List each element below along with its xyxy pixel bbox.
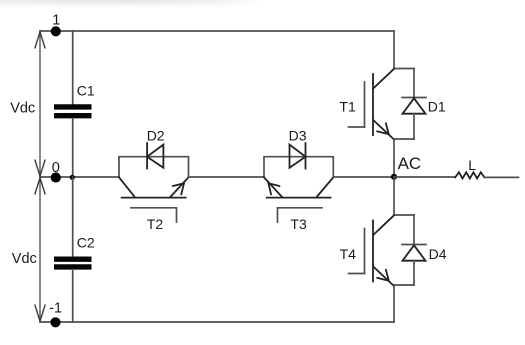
- label T3: [290, 216, 307, 232]
- node 1 junction dot: [51, 26, 61, 36]
- IGBT T4 emitter arrow: [377, 270, 389, 281]
- wire T4 emitter to bottom rail: [393, 285, 395, 322]
- wire T1 emitter to AC node: [393, 139, 395, 177]
- IGBT T1 emitter arrow: [377, 123, 389, 134]
- wire T1 collector junction to D1 branch: [394, 68, 414, 70]
- diode D2: [147, 143, 163, 168]
- node 0 label: [52, 160, 60, 176]
- wire top rail (node 1 to T1 collector): [40, 30, 394, 32]
- node -1 label: [49, 301, 62, 317]
- label T2: [147, 216, 164, 232]
- label T4: [340, 246, 357, 262]
- node 0 junction dot: [51, 172, 61, 182]
- svg-text:D3: D3: [289, 128, 307, 144]
- wire T3 to AC node: [333, 176, 394, 178]
- AC junction dot: [391, 174, 397, 180]
- wire inductor to output: [484, 176, 518, 178]
- svg-text:T2: T2: [147, 216, 164, 232]
- IGBT T3 body outline: [264, 157, 333, 198]
- svg-text:C2: C2: [77, 235, 95, 251]
- node -1 junction dot: [50, 317, 60, 327]
- svg-text:L: L: [468, 157, 476, 173]
- IGBT T1: [349, 69, 395, 140]
- inductor L: [455, 172, 484, 178]
- svg-text:D1: D1: [428, 99, 446, 115]
- svg-text:D2: D2: [147, 128, 165, 144]
- wire D1 branch upper: [413, 69, 415, 98]
- label D3: [289, 128, 307, 144]
- svg-text:T3: T3: [290, 216, 307, 232]
- label D4: [429, 246, 447, 262]
- label Vdc upper: [10, 100, 35, 116]
- svg-text:-1: -1: [49, 301, 62, 317]
- svg-text:T4: T4: [340, 246, 357, 262]
- IGBT T2 emitter arrow: [173, 183, 184, 194]
- junction dot cap branch at node 0 rail: [70, 175, 75, 180]
- wire C1 to node 0: [72, 119, 74, 178]
- IGBT T3 emitter arrow: [268, 183, 279, 194]
- label D1: [428, 99, 446, 115]
- wire mid rail (node 0 to T2): [40, 176, 119, 178]
- wire T1 collector drop from top rail: [393, 31, 395, 69]
- diode D4: [402, 245, 426, 261]
- label C1: [77, 83, 95, 99]
- diode D3: [290, 143, 306, 168]
- capacitor C1: [54, 107, 92, 116]
- Vdc lower measurement arrow line: [35, 178, 45, 321]
- label AC: [398, 154, 422, 173]
- IGBT T2 gate: [131, 208, 177, 222]
- top-left gray band (screenshot edge artifact): [0, 0, 262, 8]
- svg-text:Vdc: Vdc: [12, 251, 37, 267]
- wire D4 branch upper: [413, 215, 415, 245]
- wire D1 branch bottom to emitter: [394, 138, 414, 140]
- wire T2 to T3: [189, 176, 265, 178]
- diode D1: [402, 98, 426, 114]
- svg-text:D4: D4: [429, 246, 447, 262]
- label D2: [147, 128, 165, 144]
- wire AC node to T4 collector: [393, 177, 395, 215]
- label Vdc lower: [12, 251, 37, 267]
- Vdc upper measurement arrow line: [35, 32, 45, 176]
- wire T4 collector junction to D4 branch: [394, 214, 414, 216]
- wire node 0 rail to C2: [72, 177, 74, 256]
- IGBT T2 body outline: [119, 157, 189, 198]
- svg-text:C1: C1: [77, 83, 95, 99]
- wire C2 to bottom rail: [72, 270, 74, 323]
- svg-text:AC: AC: [398, 154, 422, 173]
- capacitor C2: [54, 259, 92, 267]
- IGBT T4: [349, 215, 395, 286]
- IGBT T3 gate: [278, 208, 323, 222]
- label T1: [339, 99, 356, 115]
- label C2: [77, 235, 95, 251]
- wire D4 branch bottom to emitter: [394, 284, 414, 286]
- wire capacitor branch upper (rail to C1): [72, 31, 74, 104]
- wire D1 branch lower: [413, 114, 415, 139]
- svg-text:1: 1: [52, 12, 60, 28]
- svg-text:T1: T1: [339, 99, 356, 115]
- label L: [468, 157, 476, 173]
- wire D4 branch lower: [413, 261, 415, 285]
- svg-text:Vdc: Vdc: [10, 100, 35, 116]
- wire bottom rail (node -1 to T4 emitter): [40, 321, 394, 323]
- node 1 label: [52, 12, 60, 28]
- wire AC node to inductor: [394, 176, 455, 178]
